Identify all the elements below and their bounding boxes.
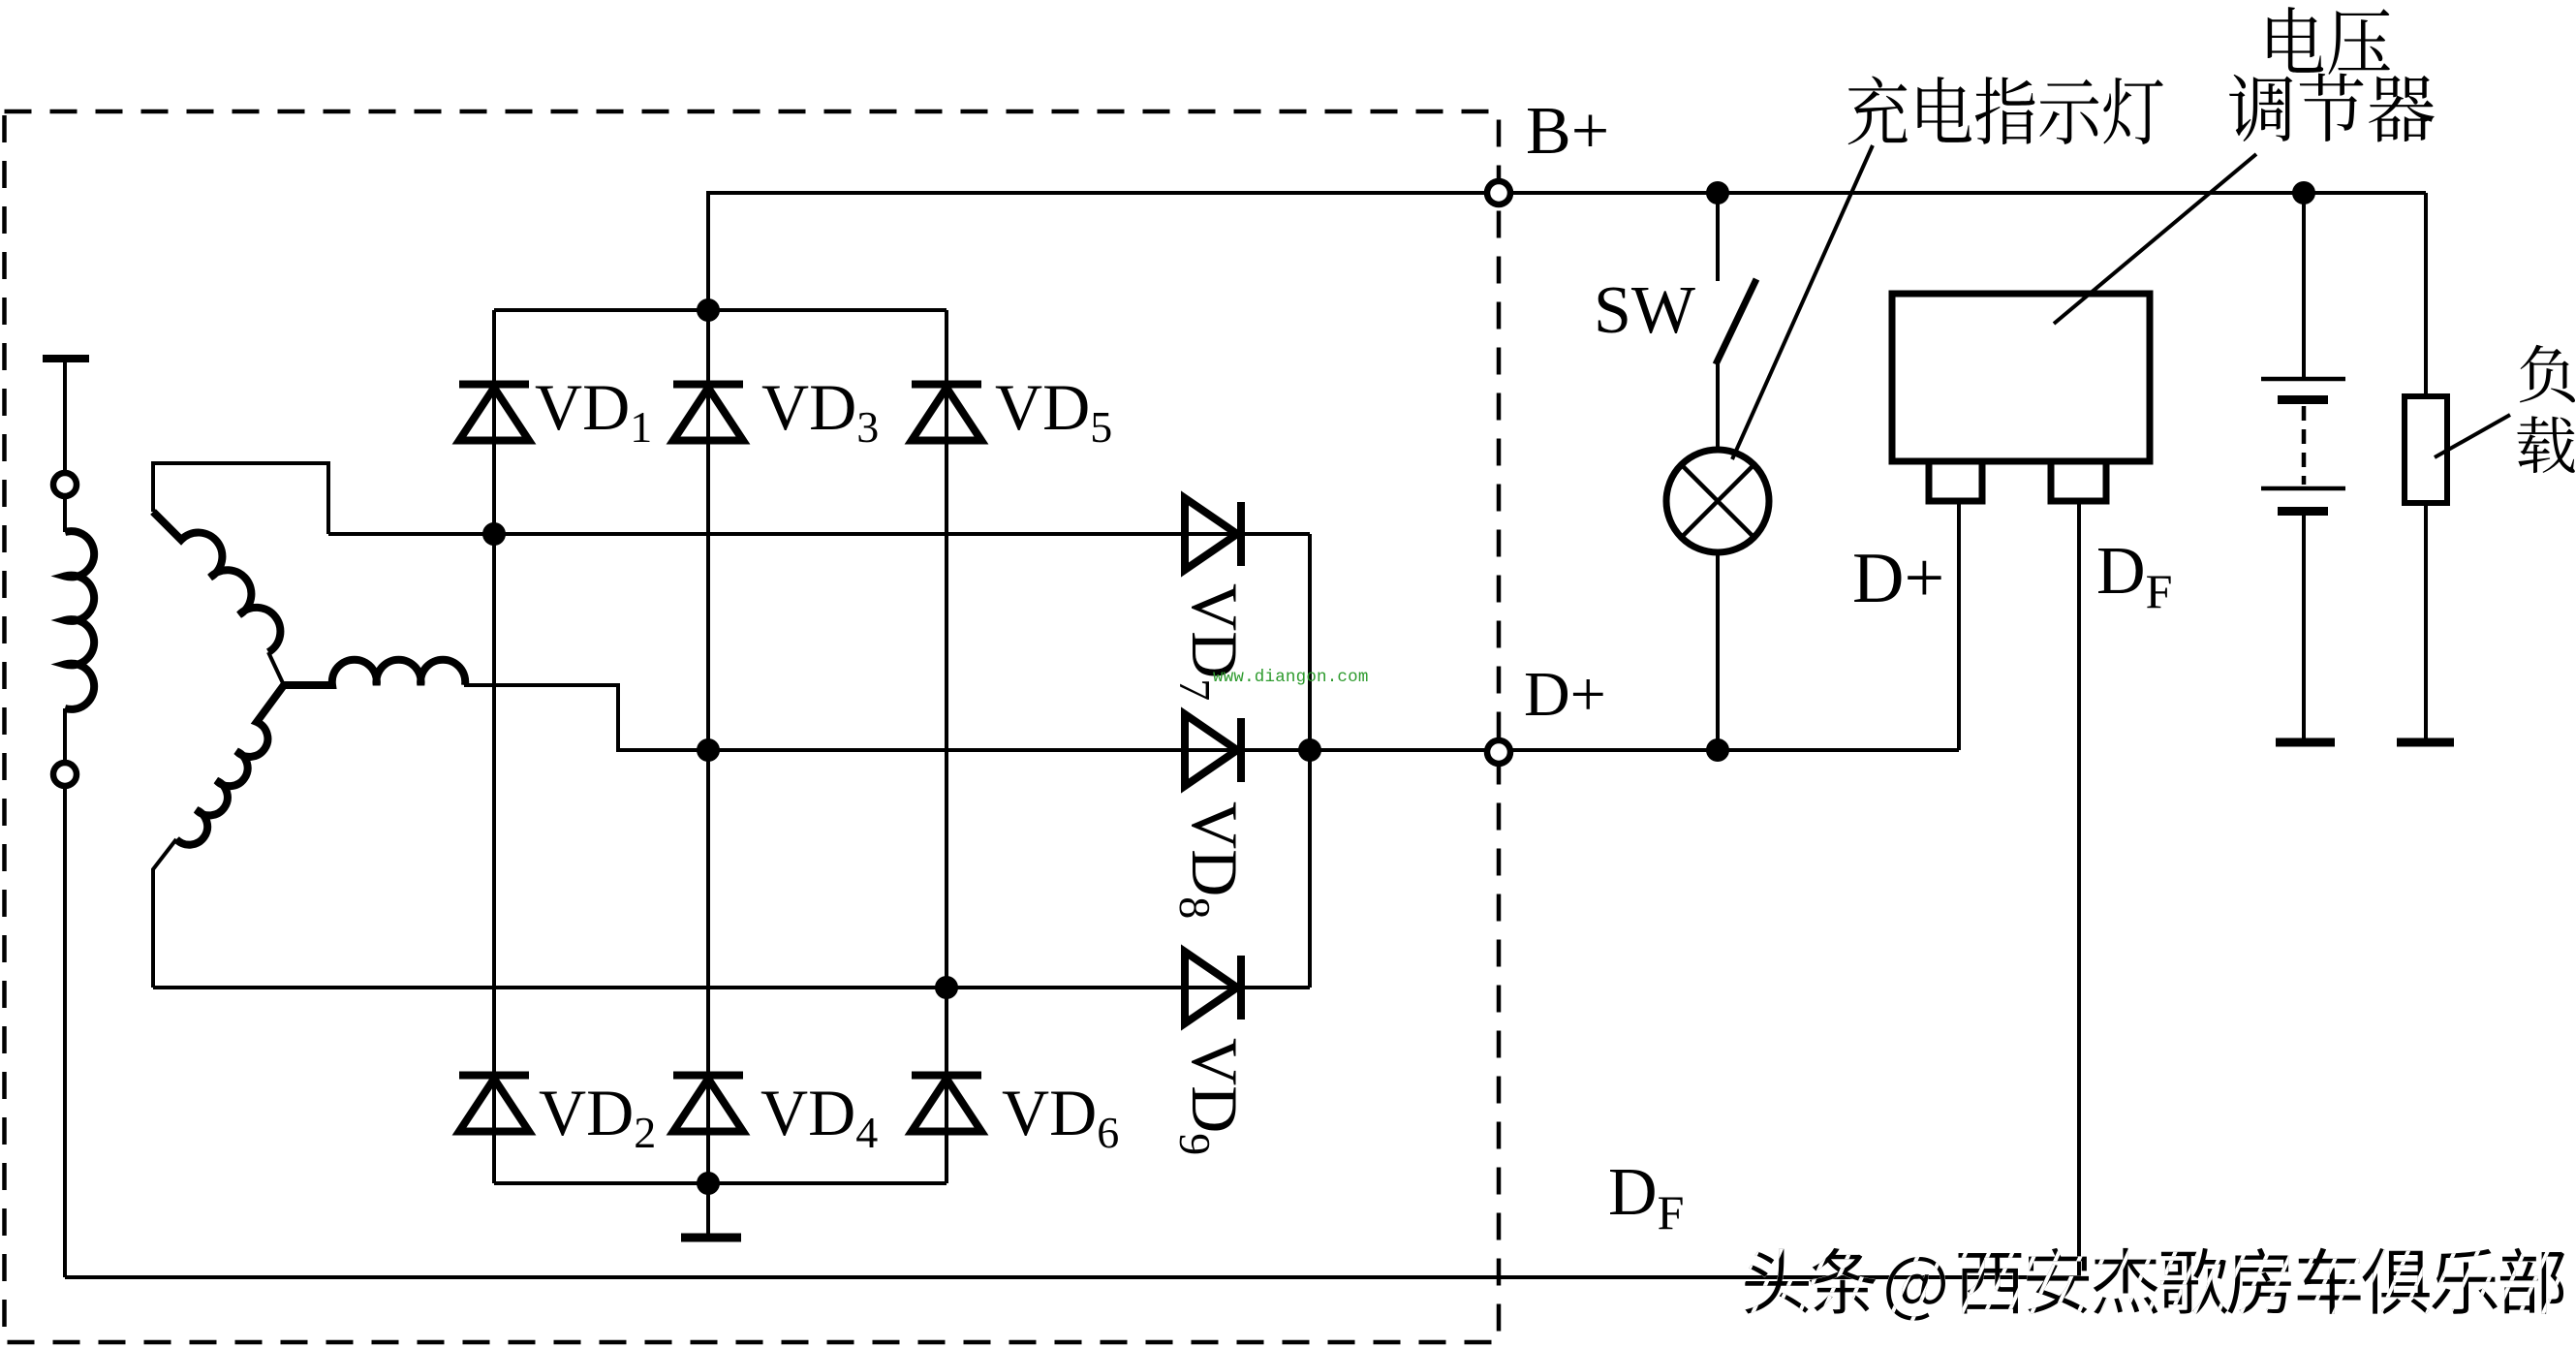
rotor field winding terminal T-bar [43, 355, 89, 362]
node phase B / VD3 junction [697, 738, 720, 762]
label VD8 (rotated) [1170, 801, 1252, 919]
svg-text:www.diangon.com: www.diangon.com [1213, 668, 1369, 687]
wire VD7/8/9 cathode link [1308, 534, 1312, 988]
wire VD5-VD6 column [945, 310, 948, 1183]
node bottom bus ground junction [697, 1172, 720, 1195]
resistor load [2405, 396, 2447, 503]
label VD7 (rotated) [1170, 583, 1252, 701]
wire phase C lead [153, 839, 176, 988]
node VD8 / D+ junction [1298, 738, 1321, 762]
wire bridge top bus [494, 308, 947, 312]
wire B+ feed from bridge [708, 193, 2426, 310]
inductor stator phase A coil [153, 512, 280, 652]
ground load [2397, 738, 2454, 747]
battery [2302, 193, 2306, 377]
brush terminal circle upper [53, 473, 77, 496]
node phase A / VD1 junction [482, 522, 506, 546]
diode VD5 [912, 385, 981, 441]
svg-text:D+: D+ [1852, 539, 1944, 618]
diode VD1 [459, 385, 529, 441]
brush terminal circle lower [53, 763, 77, 786]
label VD3 [761, 370, 879, 452]
annotation line to load [2435, 415, 2510, 457]
node B+ terminal [1487, 181, 1510, 204]
label VD2 [539, 1076, 656, 1157]
wire brush to field coil [63, 496, 67, 532]
wire load to ground [2424, 503, 2428, 740]
alternator enclosure dashed border [5, 111, 1500, 1342]
ground battery [2276, 738, 2335, 747]
annotation line to regulator [2054, 154, 2256, 324]
wire D+ rail [1310, 748, 1959, 752]
label load (Chinese) [2517, 345, 2575, 473]
node phase C / VD5 junction [935, 976, 958, 999]
label VD5 [995, 370, 1112, 452]
svg-text:D+: D+ [1524, 659, 1606, 730]
wire switch to lamp [1716, 364, 1720, 450]
diode VD3 [673, 385, 743, 441]
wire VD1-VD2 column [492, 310, 496, 1183]
diode VD2 [459, 1076, 529, 1132]
switch SW blade [1716, 193, 1720, 281]
annotation line to lamp [1732, 145, 1873, 459]
inductor stator phase C coil [176, 685, 284, 845]
node B+ rail / battery junction [2292, 181, 2315, 204]
wire phase A coil to star point [268, 652, 284, 685]
ground bridge negative [706, 1183, 710, 1235]
wire VD3-VD4 column [706, 310, 710, 1183]
diode VD6 [912, 1076, 981, 1132]
diode VD4 [673, 1076, 743, 1132]
watermark toutiao@xian (bottom) [1745, 1248, 2564, 1321]
svg-text:B+: B+ [1526, 94, 1609, 169]
wire phase A top lead [153, 463, 328, 534]
wire bridge bottom bus [494, 1181, 947, 1185]
wire phase B lead [464, 685, 1310, 750]
node D+ rail / lamp junction [1706, 738, 1729, 762]
label voltage regulator (Chinese) [2229, 7, 2435, 141]
inductor field winding coil [65, 531, 94, 709]
diode VD9 [1185, 952, 1241, 1023]
node B+ rail / switch junction [1706, 181, 1729, 204]
svg-text:SW: SW [1594, 273, 1695, 348]
label charge indicator lamp (Chinese) [1848, 77, 2163, 145]
node D+ terminal [1487, 740, 1510, 764]
wire DF rail [65, 1275, 2079, 1279]
wire field coil to lower brush [63, 708, 67, 764]
wire lamp to D+ rail [1716, 552, 1720, 750]
wire field bottom stem to DF rail [63, 786, 67, 1277]
lamp charge indicator [1666, 450, 1769, 552]
wire regulator D+ pin lead [1957, 501, 1961, 750]
label VD4 [760, 1076, 878, 1157]
label VD6 [1002, 1076, 1119, 1157]
diode VD7 [1185, 498, 1241, 570]
wire field top stem [63, 359, 67, 474]
wire load branch [2424, 193, 2428, 396]
wire phase A rail to VD7 [328, 532, 1310, 536]
label VD1 [535, 370, 652, 452]
wire regulator DF pin lead [2077, 501, 2081, 1277]
node top bus / B+ junction [697, 298, 720, 322]
label VD9 (rotated) [1170, 1038, 1252, 1155]
diode VD8 [1185, 714, 1241, 786]
voltage regulator box U1 [1892, 294, 2150, 501]
inductor stator phase B coil [284, 660, 465, 685]
wire phase C rail to VD9 [153, 986, 1310, 989]
